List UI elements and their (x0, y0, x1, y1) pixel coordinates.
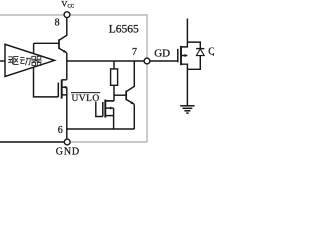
svg-text:7: 7 (132, 47, 137, 58)
transistor Q2 emitter (126, 99, 134, 104)
mosfet M1 body line (62, 86, 67, 88)
wire emitter down to M1 drain (66, 53, 68, 80)
node GD rail (67, 60, 144, 62)
wire external GND rail (0, 141, 64, 143)
mosfet Q body arrowhead (182, 54, 186, 57)
transistor Q2 collector (126, 61, 134, 92)
mosfet M2 gate bar (102, 102, 104, 117)
IC body U1 L6565 box outline (0, 15, 147, 142)
wire tap from driver top edge (33, 43, 35, 53)
mosfet M1 drain (62, 79, 67, 81)
wire to body diode D1 (187, 42, 200, 49)
ground symbol (180, 106, 194, 113)
mosfet Q gate bar (177, 49, 179, 63)
transistor Q1 (upper NPN) base bar (58, 39, 60, 49)
mosfet M1 body arrowhead (62, 86, 66, 89)
mosfet M2 source (105, 115, 113, 117)
mosfet Q source (181, 64, 187, 106)
mosfet M1 channel bar (61, 80, 63, 99)
mosfet Q drain connection (181, 19, 187, 47)
mosfet Q body line (181, 55, 187, 57)
mosfet M2 body arrowhead (110, 107, 114, 110)
mosfet Q channel bar (180, 46, 182, 65)
wire R1 to Q2 base (114, 94, 126, 96)
svg-text:6: 6 (58, 125, 63, 136)
transistor Q2 emitter arrowhead (131, 101, 135, 104)
diode D1 cathode bar (196, 48, 204, 50)
wire diode D1 anode to source (187, 56, 200, 70)
resistor R1 body (111, 69, 118, 85)
wire UVLO to M2 gate (96, 102, 103, 117)
svg-text:8: 8 (55, 17, 60, 28)
label 器 glyph (31, 56, 41, 65)
wire tap from driver bottom edge to M1 gate (34, 67, 59, 97)
label UVLO overline (71, 92, 100, 94)
resistor R1 lead bottom (113, 85, 115, 101)
wire M2 source down to ground rail (113, 108, 115, 129)
svg-text:GD: GD (154, 47, 170, 59)
svg-text:Q: Q (208, 47, 214, 58)
wire M1 source down to pin 6 (66, 87, 68, 139)
svg-text:GND: GND (56, 146, 80, 155)
wire R1 lead to M2 drain (105, 100, 114, 102)
pin 8 terminal circle (64, 12, 70, 18)
label 驱 glyph (8, 56, 19, 64)
transistor Q1 emitter (59, 48, 67, 53)
diode D1 triangle (196, 49, 204, 56)
mosfet M2 drain (105, 100, 114, 102)
resistor R1 lead top (113, 61, 115, 69)
svg-text:VCC: VCC (61, 0, 75, 10)
mosfet M1 source (62, 94, 67, 96)
mosfet M1 gate bar (57, 83, 59, 97)
transistor Q1 emitter arrowhead (63, 50, 67, 53)
wire GD to Q gate (150, 60, 178, 62)
mosfet M2 body line (105, 107, 113, 109)
label 动 glyph (20, 57, 30, 65)
svg-text:L6565: L6565 (109, 24, 139, 36)
wire internal ground rail (67, 128, 135, 130)
wire pin8 to Q1 collector (59, 18, 67, 41)
pin 7 terminal circle (144, 58, 150, 64)
op-amp U2 driver triangle (5, 44, 55, 76)
wire driver input (0, 60, 5, 62)
pin 6 terminal circle (64, 139, 70, 145)
mosfet M2 channel bar (104, 100, 106, 118)
wire Q1 base (34, 42, 59, 44)
wire Q2 emitter down (133, 104, 135, 129)
transistor Q2 (lower NPN) base bar (125, 91, 127, 101)
